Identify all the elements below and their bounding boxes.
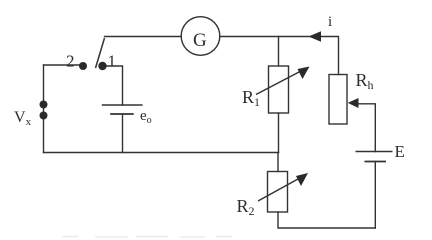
wire switch throw 1 to battery branch [104, 66, 123, 105]
rheostat Rh [329, 75, 347, 125]
svg-text:2: 2 [66, 52, 75, 71]
wire left vertical [43, 65, 45, 153]
wire galvanometer to top-right corner [220, 37, 339, 75]
wire switch pole to galvanometer [105, 36, 182, 38]
wire R2 top lead [277, 153, 279, 172]
resistor R1 [269, 66, 289, 113]
svg-text:Vx: Vx [14, 109, 32, 128]
svg-text:R1: R1 [242, 87, 260, 109]
terminal dot Vx lower [40, 112, 48, 120]
resistor R2 arrow [258, 179, 298, 201]
terminal dot Vx upper [40, 101, 48, 109]
switch S lever [96, 38, 105, 68]
wire R2 bottom lead and bottom horizontal [278, 212, 375, 228]
rheostat Rh wiper arrow [348, 98, 359, 108]
resistor R1 arrow [256, 72, 300, 95]
current arrow i on top wire [309, 31, 322, 41]
svg-text:i: i [328, 14, 332, 30]
wire e0 battery negative to middle wire [122, 114, 124, 153]
wire middle horizontal [44, 152, 279, 154]
svg-text:R2: R2 [237, 196, 255, 218]
resistor R2 [268, 172, 288, 213]
battery E short plate [365, 161, 387, 163]
switch contact dot 1 [98, 62, 106, 70]
faint scan artifact at bottom [62, 236, 232, 239]
switch contact dot 2 [79, 62, 87, 70]
battery e0 short plate [110, 113, 134, 115]
galvanometer G [181, 17, 220, 56]
svg-text:Rh: Rh [356, 70, 374, 92]
wire R1 top lead [278, 37, 280, 67]
svg-text:E: E [395, 142, 405, 161]
wire R1 bottom lead [278, 113, 280, 153]
svg-text:eo: eo [140, 108, 152, 126]
battery e0 long plate [102, 104, 143, 106]
wire top-left horizontal to switch throw 2 [44, 64, 84, 66]
battery E long plate [356, 151, 393, 153]
svg-text:G: G [193, 30, 207, 51]
wire E battery negative to bottom [374, 162, 376, 229]
svg-text:1: 1 [108, 52, 117, 71]
wire rheostat wiper to E battery [356, 104, 375, 152]
